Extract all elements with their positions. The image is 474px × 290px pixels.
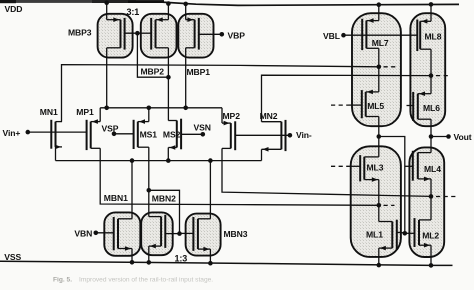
transistor ML6	[413, 91, 431, 121]
wire MN1 source down	[55, 147, 57, 161]
node MBN2/MBN3 gates	[177, 231, 182, 236]
svg-text:MBN1: MBN1	[104, 193, 128, 203]
VSS rail	[0, 261, 453, 265]
box of MBN2	[141, 212, 173, 255]
svg-text:ML7: ML7	[372, 38, 389, 48]
junction VSS/ML1	[377, 263, 382, 268]
wire ML5 source down	[378, 117, 380, 137]
transistor ML8	[417, 19, 431, 51]
transistor ML4	[413, 151, 431, 181]
svg-text:ML8: ML8	[425, 32, 442, 42]
wire MP2 drain fold to ML4 source node (wire A)	[222, 148, 431, 196]
transistor ML7	[362, 18, 379, 50]
transistor MBP1	[186, 17, 199, 49]
wire Vin- to MP2/MN2 gates	[235, 134, 290, 136]
svg-text:ML6: ML6	[423, 103, 440, 113]
svg-text:MBN3: MBN3	[224, 229, 248, 239]
svg-text:3:1: 3:1	[127, 7, 140, 17]
svg-text:MBN2: MBN2	[152, 194, 176, 204]
svg-text:Vout: Vout	[454, 132, 472, 142]
svg-text:VDD: VDD	[5, 4, 23, 14]
wire MBP1 source to VDD	[185, 4, 187, 20]
junction N-line/MBN1	[130, 158, 135, 163]
box of ML8/ML6	[410, 13, 445, 126]
wire MP1 source up	[99, 108, 101, 122]
junction VDD/ML8	[429, 2, 434, 7]
transistor MBN3	[193, 217, 210, 251]
svg-text:VSP: VSP	[102, 124, 119, 134]
node ML5 source / ML3 drain	[377, 134, 382, 139]
wire MN2 drain fold to ML8 source node	[262, 75, 432, 122]
wire MBP3/MBP2 gates to MBP2 drain (diode connection)	[125, 33, 169, 77]
box of ML7/ML5	[352, 13, 401, 126]
svg-text:VBP: VBP	[228, 31, 246, 41]
junction rail/MBP3	[104, 106, 109, 111]
node VBL	[341, 33, 346, 38]
wire to Vout	[431, 136, 449, 138]
svg-text:MN1: MN1	[40, 107, 58, 117]
junction VSS/ML2	[429, 263, 434, 268]
transistor ML3	[360, 155, 379, 182]
wire MS1 source up	[148, 108, 150, 122]
dashed wire to ML5 gate	[331, 104, 349, 106]
junction VDD/ML7	[377, 2, 382, 7]
transistor MP2	[222, 121, 235, 150]
svg-text:Vin-: Vin-	[296, 130, 312, 140]
node ML1 drain / ML3 source	[377, 203, 382, 208]
transistor ML1	[379, 220, 397, 251]
wire MBP1 drain down to P-source rail	[185, 48, 187, 108]
wire ML7 source / ML5 drain column	[378, 48, 380, 92]
svg-text:ML2: ML2	[422, 231, 439, 241]
svg-text:MBP2: MBP2	[141, 67, 165, 77]
node Vin+	[26, 130, 31, 135]
node MBP3/MBP2 gates	[135, 31, 140, 36]
node ML7 source / ML5 drain	[377, 65, 382, 70]
wire ML1 drain up	[378, 205, 380, 221]
wire MP2 source up	[221, 108, 223, 123]
wire ML1 source to VSS	[378, 248, 380, 265]
transistor MBN1	[114, 217, 132, 251]
wire Vin+ to MN1/MP1 gates	[28, 131, 87, 133]
wire MBN2 drain to MBN2/MBN3 gates (diode connection)	[149, 190, 180, 233]
wire ML4 gate stub	[405, 165, 413, 167]
wire MP1 drain fold to ML1 drain (wire B)	[100, 148, 379, 205]
wire MBP2 gate lead	[137, 32, 151, 34]
svg-text:ML4: ML4	[424, 164, 441, 174]
node ML4 source / ML2 drain	[429, 194, 434, 199]
junction VSS/MBN2	[147, 260, 152, 265]
node VSN	[201, 132, 206, 137]
svg-text:ML1: ML1	[366, 230, 383, 240]
svg-text:MS1: MS1	[140, 130, 158, 140]
svg-text:1:3: 1:3	[175, 254, 188, 264]
wire ML8 source / ML6 drain column	[430, 49, 432, 93]
node MBP2 drain / gate tie	[166, 75, 171, 80]
VDD rail	[0, 0, 164, 3]
wire MBN2 source to VSS	[148, 246, 150, 262]
wire cascode gate bias link	[379, 137, 405, 234]
svg-text:ML3: ML3	[367, 163, 384, 173]
wire ML4 drain up	[430, 137, 432, 153]
wire MBP1 gate to VBP	[199, 33, 222, 35]
junction VSS/MBN1	[130, 260, 135, 265]
junction MBN2 drain/diode wire	[147, 188, 152, 193]
junction rail/MBP1	[183, 106, 188, 111]
wire ML2 source to VSS	[430, 245, 432, 265]
dashed stub at ML1 node	[384, 204, 395, 206]
wire MBN3 source to VSS	[209, 249, 211, 263]
wire P-pair common source rail	[100, 107, 222, 109]
transistor MS2	[168, 119, 181, 150]
wire MBN1 drain up to N-line	[131, 161, 133, 219]
wire ML2 gate lead	[405, 232, 415, 234]
wire ML3 gate lead	[349, 165, 361, 167]
svg-text:VBL: VBL	[323, 31, 340, 41]
wire VSN to MS2 gate	[181, 133, 203, 135]
junction N-line/MS2	[166, 158, 171, 163]
box of MBN1	[104, 212, 140, 255]
dashed wire to ML3 gate	[331, 165, 349, 167]
transistor MBP2	[151, 17, 168, 49]
transistor MP1	[87, 119, 101, 150]
box of MBP3	[98, 14, 133, 58]
node VBN	[94, 231, 99, 236]
wire ML8 drain to VDD	[430, 4, 432, 21]
wire VSP to MS1 gate	[114, 133, 134, 135]
svg-text:Vin+: Vin+	[3, 128, 21, 138]
wire N-pair common source line	[56, 160, 262, 162]
box of ML4/ML2	[409, 147, 444, 257]
node ML1/ML2 gates	[403, 231, 408, 236]
junction N-line/MBN3	[208, 158, 213, 163]
wire MBN1 source to VSS	[131, 249, 133, 263]
wire ML6 gate stub	[407, 105, 414, 107]
junction VSS/MBN3	[208, 261, 213, 266]
node Vin-	[288, 133, 293, 138]
junction VDD/MBP2	[166, 1, 171, 6]
wire ML3 source down to node B	[378, 180, 380, 206]
wire MBN3 gate lead	[180, 232, 194, 234]
svg-text:MP1: MP1	[76, 107, 94, 117]
transistor ML5	[362, 90, 379, 119]
junction VDD/MBP1	[183, 2, 188, 7]
transistor MS1	[134, 119, 149, 149]
box of MBP2	[141, 14, 177, 58]
box of ML3/ML1	[351, 146, 401, 257]
svg-text:VBN: VBN	[74, 229, 92, 239]
box of MBN3	[186, 214, 221, 256]
wire VBN to MBN1 gate	[96, 232, 114, 234]
node ML6 source / ML4 drain	[429, 134, 434, 139]
transistor ML2	[415, 218, 432, 247]
wire MS1 drain down to MBN2 drain	[148, 147, 150, 216]
junction VDD/MBP3	[104, 1, 109, 6]
wire MBN3 drain up to N-line	[209, 161, 211, 219]
junction rail/MS1	[147, 106, 152, 111]
svg-text:MP2: MP2	[223, 111, 241, 121]
dashed stub at ML8/ML6 node	[436, 75, 448, 77]
node ML8 source / ML6 drain	[429, 73, 434, 78]
wire MBP3 source to VDD	[106, 3, 108, 20]
wire MN1 drain fold to ML7 source node	[62, 65, 379, 122]
wire ML4 source / ML2 drain	[430, 179, 432, 220]
transistor MBN2	[149, 215, 166, 249]
svg-text:Improved version of the rail-t: Improved version of the rail-to-rail inp…	[79, 277, 213, 284]
svg-text:Fig. 5.: Fig. 5.	[53, 277, 72, 284]
wire MN2 source down	[261, 149, 263, 160]
svg-text:MS2: MS2	[163, 130, 181, 140]
wire ML1 gate lead	[397, 231, 405, 234]
wire MBP3 drain down to P-source rail	[106, 48, 108, 108]
svg-text:ML5: ML5	[367, 101, 384, 111]
wire ML6 source down	[430, 119, 432, 136]
wire MBN2 gate lead	[165, 233, 179, 235]
transistor MN1	[51, 120, 62, 149]
node VBP	[220, 32, 225, 37]
wire MBP2 source to VDD	[167, 3, 169, 19]
svg-text:VSS: VSS	[4, 252, 21, 262]
svg-text:MN2: MN2	[260, 111, 278, 121]
wire MS2 drain down to N-source line	[167, 148, 169, 161]
wire ML5 gate lead	[349, 104, 362, 106]
dashed stub at ML4/ML2 node	[436, 196, 458, 198]
dashed stub at ML7/ML5 node	[384, 66, 399, 68]
transistor MBP3	[107, 17, 125, 49]
svg-text:MBP1: MBP1	[187, 67, 211, 77]
node VSP	[112, 132, 117, 137]
transistor MN2	[262, 120, 286, 152]
node Vout	[446, 134, 451, 139]
wire VBL to ML7 and ML8 gates	[344, 34, 418, 36]
wire ML3 drain up	[378, 137, 380, 157]
svg-text:VSN: VSN	[194, 122, 211, 132]
wire ML7 drain to VDD	[378, 5, 380, 21]
svg-text:MBP3: MBP3	[68, 28, 92, 38]
wire MBP2 drain down to MS2 source	[167, 48, 169, 121]
box of MBP1	[178, 14, 213, 58]
